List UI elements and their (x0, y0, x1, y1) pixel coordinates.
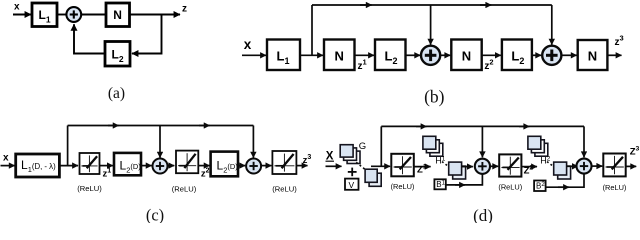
svg-text:N: N (588, 49, 597, 64)
svg-text:z3: z3 (303, 154, 312, 166)
svg-text:z1: z1 (358, 58, 367, 73)
svg-text:(b): (b) (424, 86, 445, 106)
svg-text:N: N (113, 8, 122, 22)
svg-text:(c): (c) (146, 206, 164, 224)
svg-text:(ReLU): (ReLU) (172, 185, 197, 194)
svg-text:N: N (335, 49, 344, 64)
svg-text:x: x (3, 153, 9, 164)
svg-text:(ReLU): (ReLU) (391, 182, 415, 191)
svg-text:(ReLU): (ReLU) (272, 185, 297, 194)
svg-text:z: z (182, 4, 187, 15)
svg-text:X: X (326, 150, 334, 162)
svg-text:z1: z1 (103, 167, 112, 179)
svg-text:V: V (349, 180, 355, 190)
svg-text:x: x (14, 2, 20, 13)
svg-text:G: G (359, 141, 366, 152)
svg-text:(ReLU): (ReLU) (603, 183, 627, 192)
svg-text:z2: z2 (484, 58, 493, 73)
svg-text:x: x (244, 37, 252, 52)
svg-text:H1: H1 (435, 156, 446, 166)
svg-text:N: N (462, 49, 471, 64)
svg-text:z2: z2 (201, 167, 210, 179)
svg-text:Z2: Z2 (524, 164, 534, 176)
svg-text:H2: H2 (540, 156, 551, 166)
svg-text:(ReLU): (ReLU) (498, 183, 522, 192)
svg-text:(d): (d) (473, 206, 493, 223)
svg-text:Z1: Z1 (417, 163, 427, 175)
svg-text:Z3: Z3 (630, 146, 640, 158)
svg-text:(ReLU): (ReLU) (77, 184, 102, 193)
svg-text:z3: z3 (615, 34, 624, 49)
svg-text:(a): (a) (108, 85, 125, 102)
